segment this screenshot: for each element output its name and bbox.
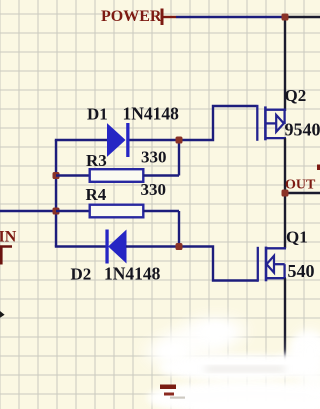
wire Q1 source vertical [284, 278, 286, 364]
channel bar [265, 247, 268, 282]
wire D1 cathode [130, 139, 180, 141]
wire IN horizontal [0, 210, 57, 212]
body arrow [276, 115, 284, 132]
wire R3-D1 vertical [178, 140, 180, 176]
diode D1 1N4148 [108, 124, 125, 156]
junction dot bus/R3 [53, 172, 60, 179]
svg-text:OUT: OUT [285, 178, 316, 193]
svg-text:330: 330 [141, 180, 167, 199]
wire R3 left [56, 174, 91, 176]
transistor Q2 (P-MOSFET 9540) [257, 105, 286, 141]
power port bar [161, 9, 164, 26]
svg-text:POWER: POWER [101, 8, 162, 25]
wire Q2 drain vertical [284, 17, 286, 111]
gray dash remnant [170, 397, 185, 399]
svg-text:R3: R3 [86, 151, 107, 170]
white smudge watermark area [146, 317, 320, 409]
svg-text:540: 540 [288, 261, 315, 281]
red dash remnant 2 [164, 393, 174, 396]
junction dot D2/R4/gate [176, 243, 183, 250]
resistor R4 330 [90, 205, 144, 218]
source stub top [265, 109, 286, 111]
junction dot D1/R3/gate [176, 137, 183, 144]
wire R3 right [143, 174, 179, 176]
svg-text:R4: R4 [86, 185, 107, 204]
body-source connector [283, 264, 285, 278]
svg-text:9540: 9540 [285, 120, 320, 140]
svg-text:1N4148: 1N4148 [104, 264, 161, 284]
drain stub bottom [265, 137, 286, 139]
faint erased text marks [205, 367, 285, 371]
wire D2 anode [126, 245, 179, 247]
resistor R3 330 [90, 169, 144, 182]
body arrow [267, 256, 274, 273]
wire power rail right [285, 16, 320, 18]
junction dot power/Q2 drain [282, 14, 289, 21]
svg-text:1N4148: 1N4148 [123, 104, 180, 124]
red dash remnant 1 [160, 385, 176, 390]
source stub bottom [266, 277, 286, 279]
junction dot bus/IN/R4 [53, 208, 60, 215]
svg-text:IN: IN [0, 229, 17, 246]
OUT port mark right edge [317, 165, 320, 171]
diode D2 1N4148 [105, 230, 108, 264]
svg-text:Q1: Q1 [286, 227, 308, 246]
svg-text:Q2: Q2 [285, 86, 307, 105]
wire Q1 gate path [179, 247, 258, 281]
body-source connector [283, 110, 285, 124]
transistor Q1 (N-MOSFET 540) [258, 247, 286, 282]
svg-text:D2: D2 [71, 265, 92, 284]
svg-text:D1: D1 [87, 105, 108, 124]
IN port symbol [0, 247, 12, 265]
wire D1 anode [55, 139, 108, 141]
gate bar [257, 247, 259, 282]
drain stub top [266, 247, 286, 249]
wire OUT to edge [285, 192, 320, 194]
power port stub wire [164, 16, 177, 18]
gate bar [256, 105, 258, 141]
body stub [265, 122, 276, 124]
wire D2 cathode [55, 245, 106, 247]
channel bar [264, 106, 267, 140]
wire R4 right [143, 210, 179, 212]
wire Q2 gate path [179, 106, 257, 140]
wire R4-D2 vertical [178, 211, 180, 247]
wire Q2 source vertical to OUT and Q1 drain [284, 138, 286, 248]
wire R4 left [56, 210, 91, 212]
body stub [274, 263, 285, 265]
svg-text:330: 330 [141, 148, 167, 167]
wire power rail [176, 16, 286, 18]
cursor arrow bottom left [0, 311, 5, 318]
wire left bus vertical [55, 140, 57, 247]
junction dot OUT [282, 190, 289, 197]
